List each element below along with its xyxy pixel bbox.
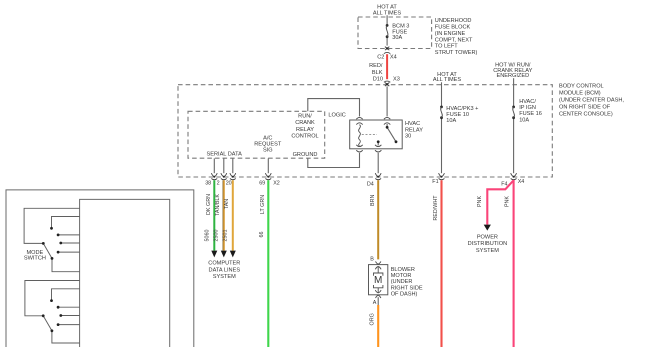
svg-text:ON RIGHT SIDE OF: ON RIGHT SIDE OF xyxy=(559,104,611,110)
svg-text:SIG: SIG xyxy=(263,148,273,154)
svg-text:COMPUTER: COMPUTER xyxy=(208,261,240,267)
svg-text:(UNDER: (UNDER xyxy=(391,279,413,285)
svg-text:(IN ENGINE: (IN ENGINE xyxy=(435,31,466,37)
svg-text:COMPT, NEXT: COMPT, NEXT xyxy=(435,37,473,43)
svg-text:A: A xyxy=(373,300,377,306)
svg-text:F1: F1 xyxy=(432,179,438,185)
svg-text:SERIAL DATA: SERIAL DATA xyxy=(207,151,243,157)
svg-text:30A: 30A xyxy=(392,35,402,41)
svg-text:TO LEFT: TO LEFT xyxy=(435,44,458,50)
svg-text:D4: D4 xyxy=(367,181,374,187)
svg-text:RELAY: RELAY xyxy=(296,127,314,133)
svg-text:69: 69 xyxy=(259,181,265,187)
svg-text:30: 30 xyxy=(405,134,411,140)
svg-text:BODY CONTROL: BODY CONTROL xyxy=(559,84,604,90)
svg-text:F4: F4 xyxy=(501,182,507,188)
svg-text:DATA LINES: DATA LINES xyxy=(209,267,241,273)
svg-text:CONTROL: CONTROL xyxy=(291,134,318,140)
svg-text:TAN: TAN xyxy=(224,199,230,209)
svg-text:PNK: PNK xyxy=(505,196,511,207)
svg-text:2501: 2501 xyxy=(223,230,229,242)
svg-text:M: M xyxy=(374,275,382,286)
svg-text:BLOWER: BLOWER xyxy=(391,267,415,273)
svg-text:FUSE 16: FUSE 16 xyxy=(519,111,542,117)
svg-text:38: 38 xyxy=(205,180,211,186)
svg-text:D10: D10 xyxy=(373,77,383,83)
svg-text:ALL TIMES: ALL TIMES xyxy=(433,77,462,83)
svg-text:MODULE (BCM): MODULE (BCM) xyxy=(559,91,601,97)
svg-text:RED/: RED/ xyxy=(369,63,383,69)
svg-text:POWER: POWER xyxy=(477,234,498,240)
svg-text:BRN: BRN xyxy=(370,195,376,206)
svg-text:66: 66 xyxy=(259,232,265,238)
svg-text:CENTER CONSOLE): CENTER CONSOLE) xyxy=(559,111,613,117)
svg-text:A/C: A/C xyxy=(263,135,272,141)
svg-text:2500: 2500 xyxy=(214,230,220,242)
svg-text:5060: 5060 xyxy=(205,230,211,242)
svg-text:10A: 10A xyxy=(519,117,529,123)
svg-text:2: 2 xyxy=(217,180,220,186)
svg-text:FUSE BLOCK: FUSE BLOCK xyxy=(435,24,471,30)
svg-text:IP IGN: IP IGN xyxy=(519,105,536,111)
svg-text:ALL TIMES: ALL TIMES xyxy=(373,11,402,17)
svg-text:CRANK: CRANK xyxy=(295,120,315,126)
svg-text:SYSTEM: SYSTEM xyxy=(476,248,499,254)
svg-text:10A: 10A xyxy=(446,118,456,124)
svg-text:ORG: ORG xyxy=(369,313,375,325)
svg-text:TAN/BLK: TAN/BLK xyxy=(215,194,221,216)
svg-text:OF DASH): OF DASH) xyxy=(391,291,418,297)
svg-text:STRUT TOWER): STRUT TOWER) xyxy=(435,50,478,56)
svg-text:MOTOR: MOTOR xyxy=(391,273,412,279)
svg-text:LOGIC: LOGIC xyxy=(328,113,345,119)
svg-text:GROUND: GROUND xyxy=(293,152,318,158)
svg-text:C2: C2 xyxy=(377,55,384,61)
svg-text:RUN/: RUN/ xyxy=(298,114,312,120)
svg-text:UNDERHOOD: UNDERHOOD xyxy=(435,18,472,24)
svg-text:B: B xyxy=(370,257,374,263)
svg-text:RELAY: RELAY xyxy=(405,127,423,133)
svg-text:HVAC: HVAC xyxy=(405,121,420,127)
svg-text:X3: X3 xyxy=(393,76,400,82)
svg-text:X2: X2 xyxy=(273,181,280,187)
svg-text:X4: X4 xyxy=(390,55,397,61)
svg-text:RED/WHT: RED/WHT xyxy=(433,195,439,221)
svg-text:20: 20 xyxy=(226,180,232,186)
svg-text:REQUEST: REQUEST xyxy=(254,142,282,148)
svg-text:HOT AT: HOT AT xyxy=(377,4,397,10)
svg-text:SWITCH: SWITCH xyxy=(24,256,46,262)
svg-text:SYSTEM: SYSTEM xyxy=(213,274,236,280)
svg-text:X4: X4 xyxy=(518,179,525,185)
svg-text:BLK: BLK xyxy=(372,70,383,76)
svg-text:LT GRN: LT GRN xyxy=(260,195,266,214)
svg-text:HVAC/: HVAC/ xyxy=(519,99,536,105)
svg-text:DK GRN: DK GRN xyxy=(206,194,212,215)
svg-text:RIGHT SIDE: RIGHT SIDE xyxy=(391,285,423,291)
svg-text:(UNDER CENTER DASH,: (UNDER CENTER DASH, xyxy=(559,98,624,104)
svg-text:PNK: PNK xyxy=(477,196,483,207)
svg-text:DISTRIBUTION: DISTRIBUTION xyxy=(468,241,507,247)
svg-text:ENERGIZED: ENERGIZED xyxy=(496,73,529,79)
